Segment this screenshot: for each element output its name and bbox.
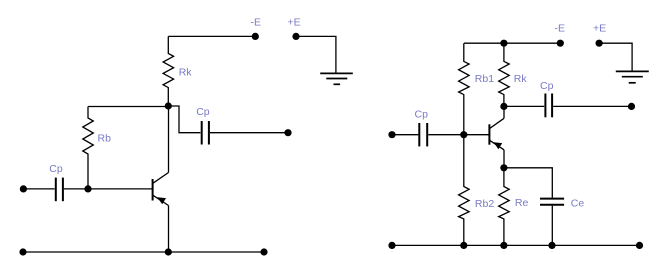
- svg-text:-E: -E: [251, 17, 262, 29]
- wire input to capacitor: [23, 188, 54, 190]
- svg-text:Re: Re: [515, 197, 529, 209]
- terminal bottom-right (right): [636, 242, 643, 249]
- node Ce-rail junction: [548, 242, 555, 249]
- wire capacitor to output (left): [210, 132, 288, 134]
- wire collector vertical (right): [503, 106, 505, 118]
- svg-text:+E: +E: [288, 17, 301, 29]
- svg-text:Rk: Rk: [179, 66, 193, 78]
- svg-text:Rk: Rk: [514, 73, 528, 85]
- terminal +E (right): [596, 40, 603, 47]
- wire bottom rail (left): [23, 251, 264, 253]
- svg-text:Cp: Cp: [540, 80, 554, 92]
- wire input to capacitor (right): [392, 134, 418, 136]
- ground (right): [616, 71, 649, 82]
- terminal -E (left): [252, 33, 259, 40]
- capacitor Cp output (left): [202, 121, 209, 145]
- svg-text:Cp: Cp: [415, 109, 429, 121]
- wire +E to ground (left): [296, 36, 336, 73]
- svg-text:Rb: Rb: [98, 133, 112, 145]
- node emitter-rail junction (left): [165, 248, 172, 255]
- wire capacitor to base (right): [428, 134, 489, 136]
- wire emitter node to Ce: [504, 168, 552, 198]
- wire Ce to rail: [551, 206, 553, 246]
- wire top rail right circuit: [464, 42, 560, 44]
- resistor Rb1: [459, 43, 470, 135]
- node base junction (left): [84, 185, 91, 192]
- terminal +E (left): [292, 33, 299, 40]
- capacitor Cp input (left): [56, 178, 63, 202]
- svg-text:+E: +E: [593, 23, 606, 35]
- node emitter junction (right): [500, 164, 507, 171]
- wire output tap (left): [168, 106, 200, 133]
- node collector junction (right): [500, 103, 507, 110]
- capacitor Cp output (right): [545, 94, 552, 118]
- wire collector node to Rb top: [88, 106, 168, 108]
- terminal input (left): [20, 185, 27, 192]
- svg-text:Rb1: Rb1: [475, 73, 494, 85]
- svg-text:Rb2: Rb2: [475, 198, 494, 210]
- wire emitter vertical (left): [168, 206, 170, 253]
- terminal bottom-left (right): [388, 242, 395, 249]
- wire bottom rail (right): [392, 244, 640, 246]
- wire collector vertical (left): [168, 106, 170, 173]
- terminal -E (right): [557, 40, 564, 47]
- terminal input (right): [388, 131, 395, 138]
- svg-text:Ce: Ce: [571, 197, 585, 209]
- wire capacitor to base: [64, 188, 153, 190]
- resistor Rk (right): [499, 43, 510, 106]
- node Rb2-rail junction: [460, 242, 467, 249]
- resistor Rb2: [459, 135, 470, 246]
- node top rail junction (right): [500, 40, 507, 47]
- node collector junction (left): [165, 102, 172, 109]
- terminal bottom-left (left): [19, 248, 26, 255]
- wire emitter vertical (right): [503, 150, 505, 168]
- resistor Rb: [83, 107, 94, 189]
- wire capacitor to output terminal (right): [553, 105, 631, 107]
- node base junction (right): [460, 131, 467, 138]
- svg-text:Cp: Cp: [196, 106, 210, 118]
- ground (left): [320, 73, 353, 84]
- svg-text:-E: -E: [555, 23, 566, 35]
- terminal output (left): [284, 129, 291, 136]
- terminal bottom-right (left): [260, 248, 267, 255]
- wire collector node to output capacitor (right): [504, 105, 544, 107]
- node Re-rail junction: [500, 242, 507, 249]
- capacitor Cp input (right): [419, 123, 427, 146]
- svg-text:Cp: Cp: [49, 163, 63, 175]
- terminal output (right): [628, 103, 635, 110]
- transistor Q1 (PNP): [153, 173, 169, 206]
- capacitor Ce (horizontal plates): [540, 199, 564, 205]
- wire +E to ground (right): [599, 43, 632, 71]
- transistor Q2 (PNP): [489, 118, 504, 150]
- resistor Rk (left): [163, 36, 174, 106]
- resistor Re: [499, 168, 510, 246]
- wire top rail left circuit: [168, 35, 255, 37]
